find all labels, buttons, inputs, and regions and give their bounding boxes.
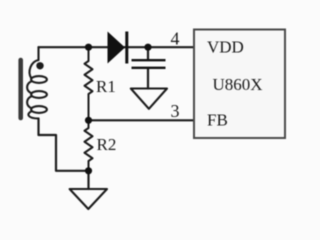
svg-text:3: 3 <box>171 101 180 121</box>
svg-text:R2: R2 <box>97 135 117 154</box>
svg-text:FB: FB <box>207 111 228 130</box>
svg-text:4: 4 <box>171 28 180 48</box>
svg-text:VDD: VDD <box>207 38 244 57</box>
svg-text:R1: R1 <box>96 77 116 96</box>
svg-text:U860X: U860X <box>213 75 263 94</box>
